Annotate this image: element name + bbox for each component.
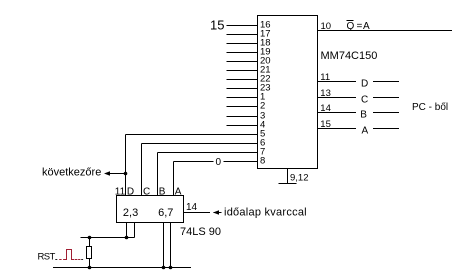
svg-text:Q: Q — [347, 21, 355, 32]
wire counter QA to U1 pin8 — [174, 162, 258, 196]
wire U1 pin17 input stub — [227, 34, 258, 36]
U1 pin label 14 — [320, 103, 331, 114]
U1 pin label 15 — [320, 119, 331, 130]
svg-text:A: A — [362, 125, 369, 136]
label Q-bar = A — [347, 21, 371, 33]
wire select C — [318, 97, 400, 99]
wire U2 pins 2,3 reset stubs — [81, 223, 135, 238]
select label B — [360, 109, 367, 120]
U2 pin label 6,7 — [158, 207, 173, 219]
svg-text:B: B — [360, 109, 367, 120]
node junction pin6 stub — [162, 266, 166, 270]
svg-text:2,3: 2,3 — [123, 207, 138, 219]
wire select D — [318, 81, 400, 83]
U2 pin label 11 — [115, 186, 126, 197]
node junction reset rail right — [125, 236, 129, 240]
svg-text:14: 14 — [186, 202, 198, 213]
label 15 (input count) — [210, 18, 224, 33]
wire select A — [318, 128, 400, 130]
U1 name label MM74C150 — [321, 50, 378, 62]
svg-text:D: D — [361, 78, 368, 89]
wire select B — [318, 112, 400, 114]
node junction R1 bottom — [88, 266, 92, 270]
label PC - ből — [412, 102, 448, 113]
svg-text:74LS 90: 74LS 90 — [180, 226, 221, 238]
wire U1 pin3 input stub — [227, 116, 258, 118]
wire to következőre arrow — [104, 171, 126, 175]
U2 output label A — [175, 186, 182, 197]
wire U1 pin20 input stub — [227, 61, 258, 63]
wire U1 pin1 input stub — [227, 97, 258, 99]
wire U1 pin21 input stub — [227, 70, 258, 72]
U2 pin label 2,3 — [123, 207, 138, 219]
wire U1 pin19 input stub — [227, 52, 258, 54]
wire U1 pin16 input stub — [227, 25, 258, 27]
resistor R1 — [87, 238, 92, 268]
svg-text:0: 0 — [216, 157, 222, 168]
U1 pin label 9,12 — [290, 173, 309, 184]
wire U1 pin10 output — [318, 30, 453, 32]
U1 pin label 11 — [320, 72, 330, 83]
U1 left pin labels 16..23,1..8 — [260, 20, 271, 167]
wire counter QC to U1 pin6 — [142, 144, 258, 196]
node junction on QD wire — [124, 172, 128, 176]
select label D — [361, 78, 368, 89]
svg-text:PC - ből: PC - ből — [412, 102, 448, 113]
svg-text:=: = — [357, 21, 363, 32]
svg-text:időalap kvarccal: időalap kvarccal — [224, 207, 307, 219]
svg-text:MM74C150: MM74C150 — [321, 50, 378, 62]
wire U2 pins 6,7 stubs to ground rail — [164, 223, 171, 268]
U2 output label B — [159, 186, 166, 197]
U2 name label 74LS90 — [180, 226, 221, 238]
svg-text:9,12: 9,12 — [290, 173, 309, 184]
node junction reset rail left — [88, 236, 92, 240]
wire counter QB to U1 pin7 — [158, 153, 258, 196]
select label C — [361, 94, 368, 105]
U2 output label D — [127, 186, 134, 197]
counter U2 74LS90 body — [117, 196, 184, 223]
ground symbol U1 pins 9,12 — [279, 169, 297, 184]
U2 output label C — [143, 186, 150, 197]
svg-text:következőre: következőre — [42, 166, 101, 178]
wire ground rail — [53, 267, 191, 269]
label időalap kvarccal — [224, 207, 307, 219]
IC U1 MM74C150 body — [258, 16, 318, 169]
svg-text:8: 8 — [260, 156, 265, 167]
node junction pin7 stub — [169, 266, 173, 270]
wire U1 pin22 input stub — [227, 79, 258, 81]
wire U1 pin4 input stub — [227, 125, 258, 127]
svg-text:C: C — [361, 94, 368, 105]
wire counter QD to U1 pin5 — [126, 135, 258, 196]
svg-text:6,7: 6,7 — [158, 207, 173, 219]
svg-text:15: 15 — [210, 18, 224, 33]
label RST — [38, 252, 56, 263]
svg-text:A: A — [363, 21, 370, 32]
select label A — [362, 125, 369, 136]
label következőre — [42, 166, 101, 178]
wire U1 pin23 input stub — [227, 88, 258, 90]
value label 0 on QA wire — [216, 157, 222, 168]
U2 pin label 14 — [186, 202, 198, 213]
svg-text:RST: RST — [38, 252, 56, 263]
wire U1 pin18 input stub — [227, 43, 258, 45]
wire U1 pin2 input stub — [227, 106, 258, 108]
RST pulse waveform — [55, 250, 83, 260]
wire clock input pin14 — [184, 210, 222, 214]
U1 pin label 10 — [321, 21, 332, 32]
U1 pin label 13 — [320, 88, 331, 99]
